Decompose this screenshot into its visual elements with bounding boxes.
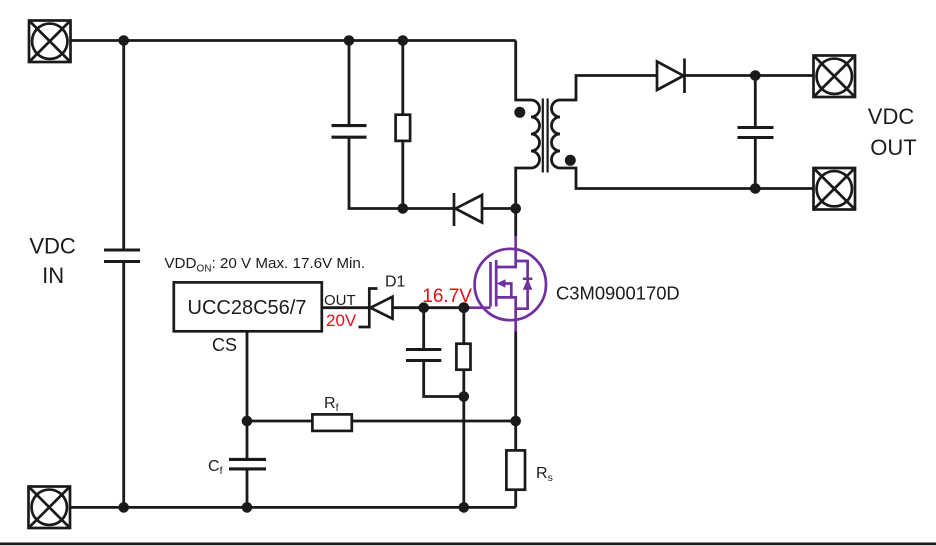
svg-text:VDC: VDC <box>29 234 76 259</box>
svg-text:VDC: VDC <box>868 104 915 129</box>
svg-text:OUT: OUT <box>870 135 916 160</box>
svg-text:20V: 20V <box>326 311 357 330</box>
svg-text:D1: D1 <box>385 274 406 291</box>
svg-text:UCC28C56/7: UCC28C56/7 <box>188 297 307 319</box>
svg-text:CS: CS <box>212 335 237 355</box>
svg-text:VDDON: 20 V Max. 17.6V Min.: VDDON: 20 V Max. 17.6V Min. <box>164 255 365 275</box>
svg-text:OUT: OUT <box>324 292 356 309</box>
svg-text:IN: IN <box>42 263 64 288</box>
svg-text:16.7V: 16.7V <box>422 286 472 307</box>
svg-text:C3M0900170D: C3M0900170D <box>556 283 680 304</box>
